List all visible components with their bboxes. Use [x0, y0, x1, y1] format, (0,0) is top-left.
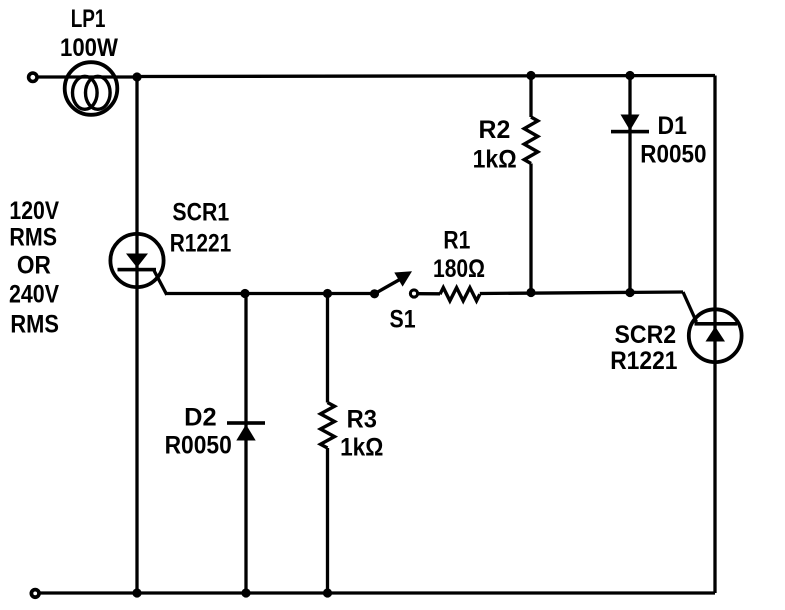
svg-text:180Ω: 180Ω [433, 255, 485, 283]
svg-text:R3: R3 [347, 406, 377, 434]
svg-text:S1: S1 [390, 305, 416, 333]
svg-text:RMS: RMS [10, 311, 59, 339]
svg-text:R0050: R0050 [640, 141, 706, 169]
svg-text:LP1: LP1 [71, 5, 106, 33]
svg-text:RMS: RMS [9, 224, 57, 252]
svg-text:1kΩ: 1kΩ [473, 146, 517, 174]
svg-text:120V: 120V [9, 197, 59, 225]
svg-text:R0050: R0050 [165, 432, 232, 460]
svg-text:R1221: R1221 [610, 347, 677, 375]
svg-text:R1221: R1221 [170, 229, 232, 257]
svg-text:R2: R2 [479, 116, 511, 144]
svg-text:100W: 100W [60, 34, 118, 62]
svg-text:SCR2: SCR2 [615, 321, 677, 349]
svg-text:R1: R1 [443, 226, 470, 254]
svg-text:1kΩ: 1kΩ [340, 434, 383, 462]
svg-text:D1: D1 [658, 112, 687, 140]
svg-text:OR: OR [17, 252, 51, 280]
svg-text:240V: 240V [9, 281, 59, 309]
svg-text:SCR1: SCR1 [172, 199, 229, 227]
svg-text:D2: D2 [184, 403, 217, 431]
